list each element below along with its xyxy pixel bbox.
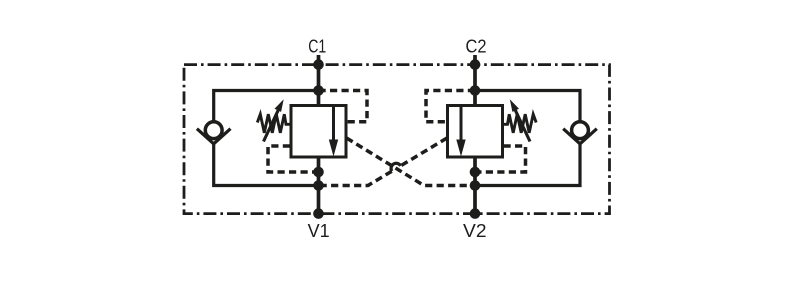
valve body boundary (dash-dot enclosure) [184,65,610,214]
junction node left pilot tap [313,85,324,96]
wire: C2 port line (top vertical into right valve) [473,55,477,106]
right adjustable spring [503,114,537,133]
svg-text:V2: V2 [463,220,487,241]
left valve flow arrow [332,106,335,143]
pilot line: cross pilot from left valve to V2 line (with hop at crossing) [347,138,476,186]
junction node V2/body boundary [470,208,481,219]
junction node right bypass bottom [470,180,481,191]
pilot line: cross pilot from right valve to V1 line [319,138,448,186]
wire: left bypass loop (check valve branch around left valve) [214,91,319,186]
junction node right drain tap [470,167,481,178]
wire: C1 port line (top vertical into left valve) [317,55,321,106]
svg-text:V1: V1 [308,220,330,241]
counterbalance valve V2 body (right square) [448,106,503,158]
pilot line: right valve internal pilot (top loop) [426,91,475,122]
pilot line: left valve internal pilot (top loop) [319,91,368,122]
pilot line: right valve drain loop (bottom) [477,146,526,172]
check valve CV2 (ball) [572,122,589,139]
junction node left drain tap [313,167,324,178]
check valve CV1 (seat) [197,129,231,144]
junction node C2/body boundary [470,59,481,70]
svg-text:C1: C1 [308,36,326,57]
wire: right bypass loop (check valve branch around right valve) [475,91,580,186]
svg-text:C2: C2 [466,36,487,57]
left adjustable spring [257,114,291,133]
junction node C1/body boundary [313,59,324,70]
junction node right pilot tap [470,85,481,96]
check valve CV2 (seat) [563,129,597,144]
wire: V1 port line (bottom vertical from left valve) [317,157,321,214]
pilot line: left valve drain loop (bottom) [268,146,317,172]
junction node V1/body boundary [313,208,324,219]
counterbalance valve V1 body (left square) [291,106,346,158]
left spring adjustment arrow [264,110,279,141]
wire: V2 port line (bottom vertical from right valve) [473,157,477,214]
junction node left bypass bottom [313,180,324,191]
right valve flow arrow [460,106,463,143]
wire hop at pilot crossing [391,163,401,171]
right spring adjustment arrow [515,110,530,141]
check valve CV1 (ball) [205,122,222,139]
